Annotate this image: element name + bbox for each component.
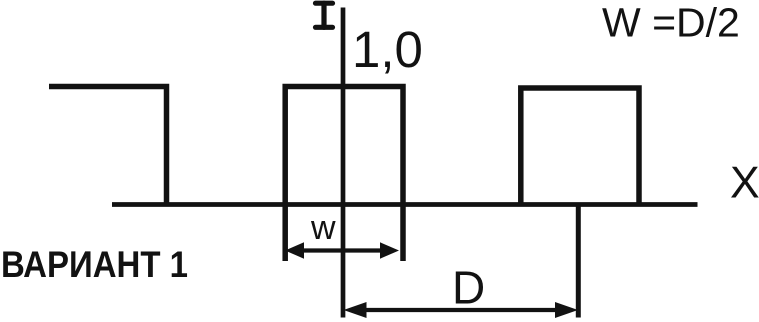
w arrow left head <box>285 242 304 258</box>
w arrow right head <box>380 242 399 258</box>
svg-text:D: D <box>452 262 485 314</box>
D extension line below axis at x=578 <box>576 203 581 318</box>
D arrow left head <box>344 302 367 318</box>
pulse 2 (center) with edges extended below axis <box>285 87 403 262</box>
svg-text:X: X <box>730 159 759 208</box>
pulse 3 (right) <box>521 88 639 207</box>
svg-text:W =D/2: W =D/2 <box>602 0 740 46</box>
pulse 1 (left, partial) <box>49 87 167 207</box>
svg-text:w: w <box>310 209 336 247</box>
svg-text:1,0: 1,0 <box>352 21 423 78</box>
axis horizontal (X axis) <box>112 202 698 207</box>
w arrow line <box>300 248 384 252</box>
D arrow line <box>362 308 560 312</box>
svg-text:ВАРИАНТ 1: ВАРИАНТ 1 <box>1 243 188 285</box>
axis vertical (I axis) <box>341 8 346 318</box>
label I (I-beam glyph at top of vertical axis) <box>316 3 333 27</box>
D arrow right head <box>555 302 578 318</box>
